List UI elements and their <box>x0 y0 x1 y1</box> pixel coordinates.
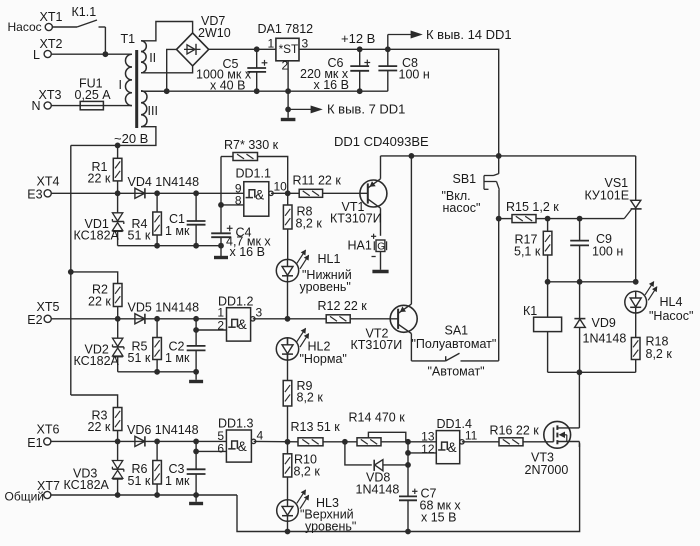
thyristor VS1 KU101E <box>585 156 642 282</box>
resistor R12 22k <box>318 299 368 323</box>
node row2 bottom C2 <box>193 369 199 375</box>
node C8 top <box>385 46 391 52</box>
svg-text:R15 1,2 к: R15 1,2 к <box>506 200 559 214</box>
wire 0V rail <box>141 90 388 92</box>
diode VD5 1N4148 <box>128 301 200 324</box>
wire HL2 to R9 <box>287 360 289 380</box>
svg-text:1N4148: 1N4148 <box>356 483 400 497</box>
svg-text:I: I <box>119 78 122 92</box>
svg-text:VD6 1N4148: VD6 1N4148 <box>127 423 199 437</box>
svg-text:R14 470 к: R14 470 к <box>349 411 406 425</box>
node DD1.3 output <box>285 439 291 445</box>
LED HL3 upper level <box>277 477 357 534</box>
svg-text:Т1: Т1 <box>121 32 136 46</box>
LED HL4 nasos <box>625 282 694 323</box>
svg-text:SA1: SA1 <box>445 324 469 338</box>
node C6 bottom <box>357 88 363 94</box>
svg-text:К1: К1 <box>523 304 537 318</box>
node 20V to R1 branch <box>115 143 121 149</box>
node E2 R2 <box>115 316 121 322</box>
svg-text:1N4148: 1N4148 <box>583 332 627 346</box>
svg-text:2N7000: 2N7000 <box>525 463 569 477</box>
resistor R5 51k <box>128 319 162 372</box>
svg-text:3: 3 <box>302 37 309 51</box>
resistor R6 51k <box>128 441 162 495</box>
svg-text:х 15 В: х 15 В <box>421 511 456 525</box>
node E3 R4 <box>154 190 160 196</box>
wire VT3 source riser <box>578 442 580 448</box>
resistor R10 8,2k <box>283 442 320 479</box>
svg-text:III: III <box>148 104 158 118</box>
svg-text:R16 22 к: R16 22 к <box>490 424 540 438</box>
wire E3 rail <box>51 192 244 194</box>
svg-text:&: & <box>238 317 247 332</box>
logic gate DD1.2 <box>196 295 262 342</box>
node C5 top <box>254 46 260 52</box>
svg-text:Е3: Е3 <box>27 188 42 202</box>
wire SB1 to SA1 <box>498 219 500 361</box>
node row2 bottom R5 <box>154 369 160 375</box>
wire relay bottom rail <box>548 371 636 373</box>
zener VD1 KS182A <box>74 193 124 245</box>
resistor R2 22k <box>88 283 122 319</box>
svg-text:ХТ5: ХТ5 <box>37 300 60 314</box>
svg-text:8,2 к: 8,2 к <box>294 465 321 479</box>
svg-text:"Полуавтомат": "Полуавтомат" <box>412 337 497 351</box>
resistor R3 22k <box>88 408 122 442</box>
svg-text:К выв. 7 DD1: К выв. 7 DD1 <box>327 102 405 117</box>
svg-text:К1.1: К1.1 <box>72 5 97 19</box>
svg-text:VD5 1N4148: VD5 1N4148 <box>128 301 200 315</box>
node XT7 VD3 <box>115 492 121 498</box>
node pin13 junction <box>405 439 411 445</box>
ground DA1 <box>281 109 296 119</box>
svg-text:1 мк: 1 мк <box>165 474 190 488</box>
svg-text:22 к: 22 к <box>88 172 111 186</box>
node bottom C7 <box>405 529 411 535</box>
node pin2 C2 <box>193 327 199 333</box>
svg-text:R11 22 к: R11 22 к <box>293 174 342 188</box>
svg-text:II: II <box>149 51 156 65</box>
node bridge minus <box>164 88 170 94</box>
node pin12 junction <box>405 450 411 456</box>
node VD9 top <box>577 279 583 285</box>
wire R11 to VT1 base <box>323 192 368 194</box>
node E1 R3 <box>115 439 121 445</box>
wire row1 bottom <box>118 245 221 247</box>
node SB1 R15 <box>496 216 502 222</box>
node row1 bottom C1 <box>193 243 199 249</box>
wire HL1 to DD1.2 output <box>287 282 289 319</box>
transformer T1 secondary winding II <box>141 41 156 73</box>
logic gate DD1.3 <box>196 417 263 463</box>
node HL4 top <box>633 279 639 285</box>
node C4 bottom row1 <box>218 243 224 249</box>
capacitor C8 100n <box>378 49 429 91</box>
logic gate DD1.1 CD4093 <box>221 167 287 217</box>
node E1 C3 <box>193 439 199 445</box>
transformer T1 primary winding I <box>119 54 132 105</box>
svg-text:уровень": уровень" <box>305 520 356 534</box>
relay contact K1.1 <box>52 5 106 54</box>
pushbutton SB1 <box>442 156 500 219</box>
node C5 bottom <box>254 88 260 94</box>
terminal XT3 <box>32 88 62 113</box>
node E2 R5 <box>154 316 160 322</box>
diode VD4 1N4148 <box>128 175 200 198</box>
wire DD1.4 input riser <box>407 442 409 497</box>
wire R16 to VT3 gate <box>523 441 554 443</box>
svg-text:VD4 1N4148: VD4 1N4148 <box>128 175 200 189</box>
svg-text:ХТ6: ХТ6 <box>37 423 60 437</box>
relay coil K1 <box>523 282 562 373</box>
wire DD1.1 output <box>271 192 299 194</box>
resistor R16 22k <box>490 424 540 446</box>
voltage regulator DA1 7812 <box>258 22 314 109</box>
LED HL1 lower level <box>276 250 351 294</box>
svg-text:КТ3107И: КТ3107И <box>351 338 403 352</box>
svg-text:DD1.1: DD1.1 <box>236 167 271 181</box>
svg-text:51 к: 51 к <box>128 351 151 365</box>
svg-text:Е1: Е1 <box>27 436 42 450</box>
svg-text:&: & <box>255 188 264 203</box>
wire relay node rail <box>548 281 636 283</box>
svg-text:22 к: 22 к <box>88 295 111 309</box>
wire XT7 rail <box>50 494 237 496</box>
wire +12V mid rail <box>381 155 636 157</box>
LED HL2 norma <box>276 329 347 367</box>
wire bottom rail <box>237 443 580 531</box>
wire winding II top to bridge <box>141 22 193 41</box>
node C9 top <box>577 216 583 222</box>
svg-text:К выв. 14 DD1: К выв. 14 DD1 <box>426 27 512 42</box>
svg-text:SB1: SB1 <box>453 172 477 186</box>
svg-text:&: & <box>238 439 247 454</box>
wire 20V trunk <box>70 145 72 395</box>
terminal XT4 <box>27 175 59 202</box>
node E3 C1 <box>193 190 199 196</box>
svg-text:х 40 В: х 40 В <box>210 79 245 93</box>
node K1 top <box>545 279 551 285</box>
svg-text:ХТ2: ХТ2 <box>40 37 63 51</box>
resistor R9 8,2k <box>283 379 323 442</box>
svg-text:х 16 В: х 16 В <box>230 245 265 259</box>
wire trunk to R2 <box>71 272 118 284</box>
wire L rail <box>51 53 132 55</box>
transformer T1 core <box>121 32 137 128</box>
wire to pin 7 DD1 arrow <box>288 102 405 117</box>
capacitor C7 68uF 15V <box>399 487 461 532</box>
node DD1.2 output <box>285 316 291 322</box>
wire R12 to VT2 base <box>350 318 398 320</box>
node E1 R6 <box>154 439 160 445</box>
svg-text:КС182А: КС182А <box>74 229 120 243</box>
transistor VT2 KT3107I <box>351 156 418 361</box>
terminal XT1 <box>8 10 63 34</box>
capacitor C6 220uF 16V <box>300 49 370 92</box>
svg-text:КТ3107И: КТ3107И <box>330 212 382 226</box>
wire E1 rail <box>50 440 226 442</box>
diode VD9 1N4148 <box>574 282 626 373</box>
svg-text:НА1: НА1 <box>348 239 372 253</box>
capacitor C4 4.7uF 16V <box>211 225 271 259</box>
svg-text:"Автомат": "Автомат" <box>428 365 485 379</box>
node DA1 ground tap <box>285 107 291 113</box>
resistor R4 51k <box>128 193 162 245</box>
svg-text:100 н: 100 н <box>592 245 623 259</box>
resistor R1 22k <box>88 145 122 193</box>
diode VD8 1N4148 <box>345 442 408 497</box>
node E3 R1 <box>115 190 121 196</box>
svg-text:R13 51 к: R13 51 к <box>291 420 341 434</box>
node VT3 drain <box>577 369 583 375</box>
resistor R13 51k <box>291 420 341 446</box>
terminal XT6 <box>27 423 59 450</box>
svg-text:2: 2 <box>217 319 224 333</box>
resistor R15 1,2k <box>499 200 560 223</box>
svg-text:5,1 к: 5,1 к <box>514 245 541 259</box>
transformer T1 secondary winding III <box>141 91 158 127</box>
node SB1 rail <box>496 153 502 159</box>
trimmer resistor R14 470k <box>349 411 409 446</box>
svg-text:DA1 7812: DA1 7812 <box>258 22 314 36</box>
svg-text:3: 3 <box>256 306 263 320</box>
svg-text:DD1.3: DD1.3 <box>218 417 253 431</box>
ground C2 <box>189 380 203 383</box>
wire trunk to R3 <box>71 395 118 408</box>
svg-text:R7* 330 к: R7* 330 к <box>224 138 279 152</box>
wire DD1.4 output <box>462 441 499 443</box>
wire R13 to R14 <box>323 441 357 443</box>
svg-text:х 16 В: х 16 В <box>314 78 349 92</box>
ground C3 <box>189 502 203 505</box>
switch SA1 <box>411 324 498 379</box>
node C6 top <box>357 46 363 52</box>
wire bridge minus to 0V rail <box>167 49 177 91</box>
node pin6 C3 <box>193 449 199 455</box>
wire winding III top to 0V rail <box>141 90 167 92</box>
svg-text:0,25 А: 0,25 А <box>75 88 112 102</box>
wire E2 rail <box>51 318 227 320</box>
svg-text:2W10: 2W10 <box>198 26 231 40</box>
diode VD6 1N4148 <box>127 423 199 447</box>
wire VT3 drain riser <box>578 372 580 428</box>
zener VD3 KS182A <box>64 441 124 495</box>
wire DD1.3 output <box>254 440 298 442</box>
node XT7 C3 <box>193 492 199 498</box>
svg-text:ХТ1: ХТ1 <box>40 10 63 24</box>
ground HA1 <box>372 270 388 273</box>
svg-text:8,2 к: 8,2 к <box>297 391 324 405</box>
capacitor C1 1uF <box>165 193 206 245</box>
logic gate DD1.4 <box>408 417 478 464</box>
svg-text:HL4: HL4 <box>660 295 683 309</box>
ground C4 <box>214 256 228 259</box>
wire winding II bottom to bridge <box>141 66 193 73</box>
zener VD2 KS182A <box>74 319 124 372</box>
svg-text:КС182А: КС182А <box>64 478 110 492</box>
capacitor C2 1uF <box>165 319 206 380</box>
svg-text:51 к: 51 к <box>128 229 151 243</box>
svg-text:1 мк: 1 мк <box>165 351 190 365</box>
terminal XT7 <box>5 479 60 504</box>
svg-text:4: 4 <box>257 429 264 443</box>
svg-text:ХТ4: ХТ4 <box>37 175 60 189</box>
capacitor C9 100n <box>570 219 623 282</box>
resistor R8 8,2k <box>283 193 322 259</box>
svg-text:КС182А: КС182А <box>74 354 120 368</box>
svg-text:100 н: 100 н <box>399 68 430 82</box>
resistor R17 5,1k <box>514 219 552 282</box>
svg-text:DD1.4: DD1.4 <box>437 417 472 431</box>
node R13 R14 VD8 <box>342 439 348 445</box>
svg-text:&: & <box>448 440 457 455</box>
buzzer HA1 <box>348 234 387 270</box>
node DD1.1 output <box>285 190 291 196</box>
resistor R7* 330k feedback <box>221 138 288 233</box>
svg-text:ХТ3: ХТ3 <box>39 88 62 102</box>
svg-text:1: 1 <box>268 37 275 51</box>
svg-text:КУ101Е: КУ101Е <box>585 189 630 203</box>
svg-text:*ST: *ST <box>279 42 299 56</box>
svg-text:Е2: Е2 <box>27 313 42 327</box>
wire gate node <box>548 218 625 220</box>
svg-text:Общий: Общий <box>5 490 45 504</box>
svg-text:"Насос": "Насос" <box>649 309 693 323</box>
wire +12V rail to right <box>299 49 499 156</box>
node trunk R2 branch <box>68 269 74 275</box>
transistor VT1 KT3107I <box>330 156 387 236</box>
node R15 R17 <box>545 216 551 222</box>
svg-text:12: 12 <box>421 442 435 456</box>
svg-text:"Норма": "Норма" <box>300 352 347 366</box>
capacitor C5 1000uF 40V <box>196 49 267 92</box>
resistor R11 22k <box>293 174 342 198</box>
resistor R18 8,2k <box>631 313 672 372</box>
wire row2 bottom <box>118 371 196 373</box>
capacitor C3 1uF <box>165 441 206 501</box>
svg-text:8,2 к: 8,2 к <box>646 347 673 361</box>
node L-K1.1 junction <box>103 51 109 57</box>
svg-text:10: 10 <box>274 180 288 194</box>
svg-text:DD1 CD4093ВЕ: DD1 CD4093ВЕ <box>334 134 429 149</box>
svg-text:Насос: Насос <box>8 20 42 34</box>
wire to pin 14 DD1 arrow <box>388 27 512 49</box>
node DA1 ground rail <box>285 88 291 94</box>
svg-text:G: G <box>377 242 385 253</box>
node XT7 R6 <box>154 492 160 498</box>
node E2 C2 <box>193 316 199 322</box>
wire N to transformer <box>103 105 131 107</box>
transistor VT3 2N7000 <box>525 421 580 477</box>
node row1 bottom R4 <box>154 243 160 249</box>
svg-text:6: 6 <box>217 442 224 456</box>
terminal XT5 <box>27 300 59 327</box>
wire DD1.2 output <box>253 318 326 320</box>
svg-text:насос": насос" <box>443 201 481 215</box>
node VT2 emitter rail <box>409 153 415 159</box>
svg-text:DD1.2: DD1.2 <box>218 295 253 309</box>
fuse FU1 0,25 A <box>51 77 112 110</box>
wire winding III bottom ~20V <box>71 127 156 146</box>
bridge rectifier VD7 2W10 <box>177 14 231 66</box>
node bottom HL3 <box>285 529 291 535</box>
svg-text:N: N <box>32 99 41 113</box>
node VD8 junction <box>405 462 411 468</box>
svg-text:22 к: 22 к <box>88 420 111 434</box>
svg-text:HL1: HL1 <box>318 252 341 266</box>
svg-text:8: 8 <box>235 193 242 207</box>
svg-text:8,2 к: 8,2 к <box>296 217 323 231</box>
svg-text:уровень": уровень" <box>300 280 351 294</box>
node pin8 RC <box>218 202 224 208</box>
svg-text:L: L <box>33 48 40 62</box>
svg-text:51 к: 51 к <box>128 474 151 488</box>
wire bridge plus rail <box>209 48 276 50</box>
terminal XT2 <box>33 37 62 62</box>
svg-text:R12 22 к: R12 22 к <box>318 299 368 313</box>
svg-text:+12 В: +12 В <box>341 31 375 46</box>
svg-text:VD9: VD9 <box>592 316 616 330</box>
svg-text:1 мк: 1 мк <box>165 224 190 238</box>
